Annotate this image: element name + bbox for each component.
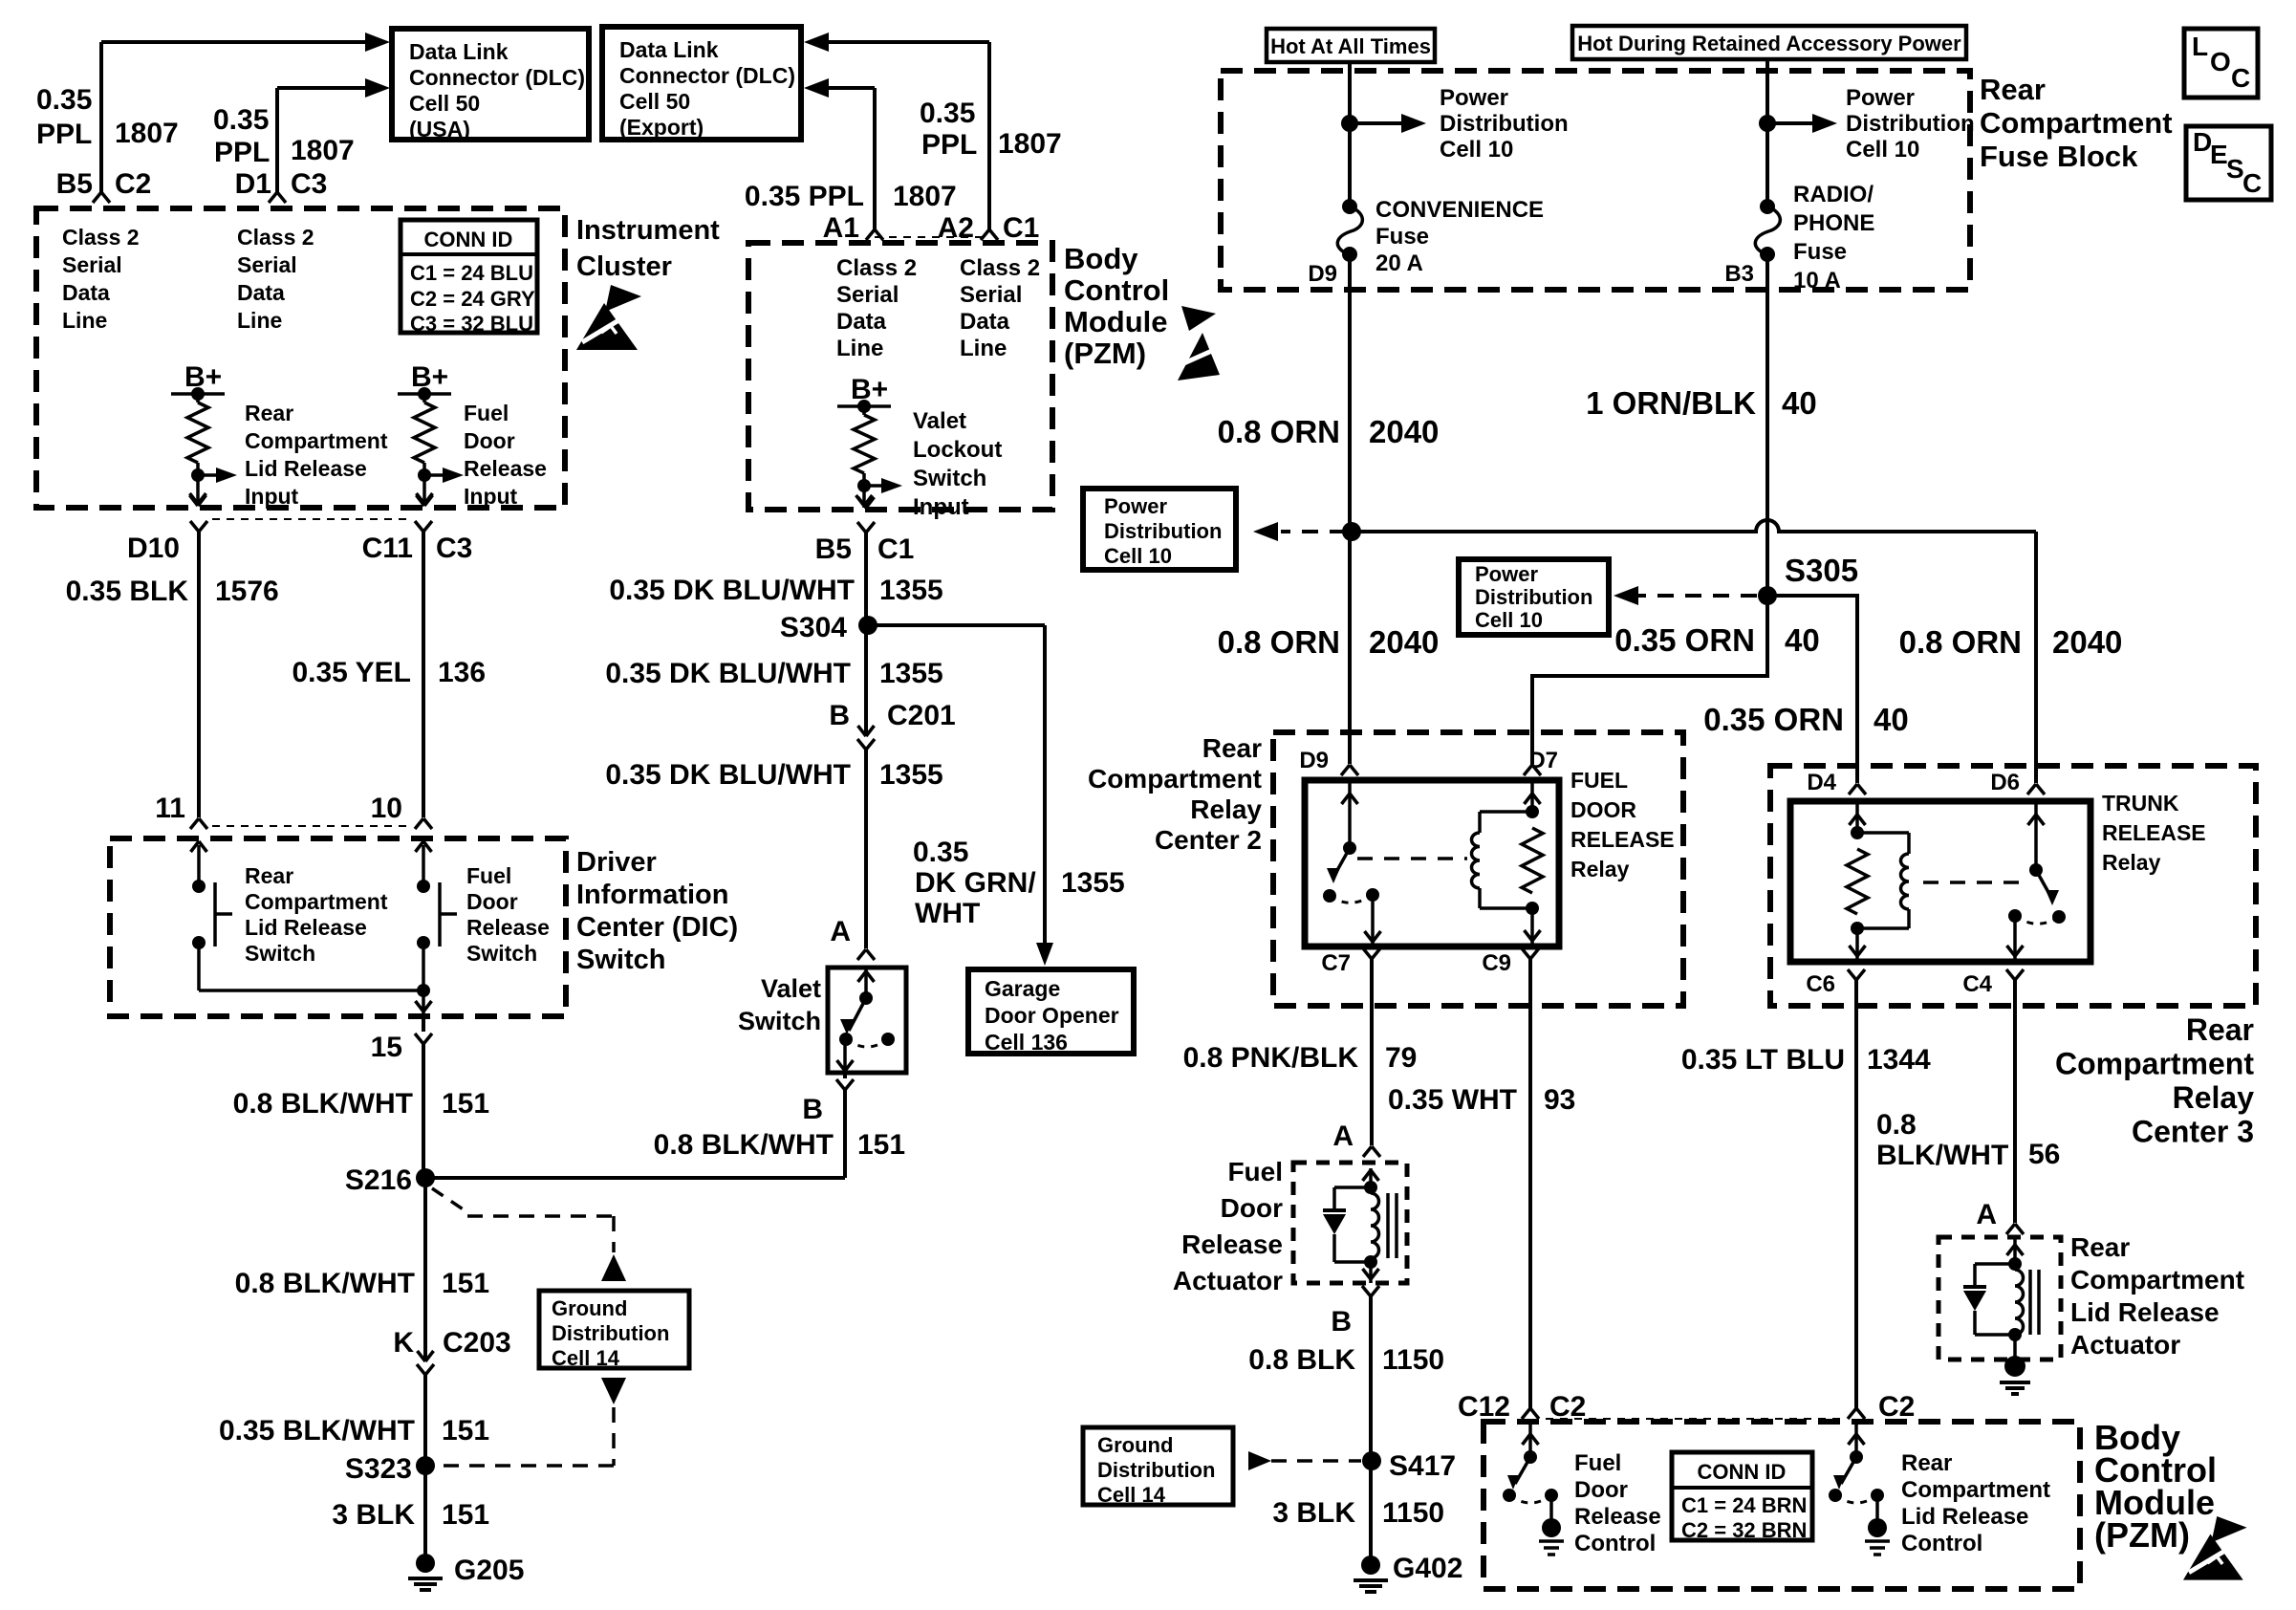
svg-text:1355: 1355: [879, 575, 943, 606]
svg-text:Distribution: Distribution: [1475, 585, 1592, 609]
svg-text:Cell 10: Cell 10: [1104, 544, 1172, 568]
svg-text:Door Opener: Door Opener: [985, 1003, 1119, 1028]
svg-text:TRUNK: TRUNK: [2102, 791, 2179, 816]
svg-text:RADIO/: RADIO/: [1793, 182, 1874, 207]
svg-text:1807: 1807: [291, 135, 355, 166]
svg-text:79: 79: [1385, 1042, 1417, 1074]
svg-text:Switch: Switch: [245, 941, 315, 966]
svg-text:0.8 BLK/WHT: 0.8 BLK/WHT: [233, 1088, 413, 1120]
svg-text:Release: Release: [1181, 1229, 1283, 1259]
svg-text:D9: D9: [1308, 261, 1337, 287]
svg-text:Cell 10: Cell 10: [1846, 137, 1919, 163]
svg-text:Power: Power: [1104, 494, 1167, 518]
svg-text:0.8 BLK/WHT: 0.8 BLK/WHT: [235, 1268, 415, 1299]
svg-text:S305: S305: [1785, 553, 1858, 588]
svg-text:Door: Door: [464, 428, 515, 453]
svg-text:3 BLK: 3 BLK: [332, 1499, 415, 1531]
svg-text:C9: C9: [1482, 950, 1511, 976]
svg-text:C2 = 24 GRY: C2 = 24 GRY: [410, 287, 535, 311]
svg-text:Fuel: Fuel: [466, 863, 511, 888]
svg-text:0.35: 0.35: [213, 104, 269, 136]
svg-text:1355: 1355: [879, 759, 943, 791]
svg-text:WHT: WHT: [915, 898, 980, 929]
svg-text:Serial: Serial: [836, 282, 899, 308]
svg-text:Connector (DLC): Connector (DLC): [409, 65, 585, 90]
svg-text:10 A: 10 A: [1793, 268, 1841, 294]
svg-text:Door: Door: [466, 889, 518, 914]
svg-text:Fuel: Fuel: [464, 401, 509, 425]
svg-text:Release: Release: [466, 915, 550, 940]
svg-text:Lid Release: Lid Release: [245, 456, 367, 481]
svg-text:0.35 LT BLU: 0.35 LT BLU: [1681, 1044, 1845, 1076]
svg-text:B5: B5: [56, 168, 93, 200]
svg-text:C3: C3: [436, 533, 472, 564]
svg-text:1150: 1150: [1382, 1497, 1444, 1529]
svg-text:Lockout: Lockout: [913, 437, 1002, 463]
svg-text:0.35: 0.35: [36, 84, 92, 116]
svg-text:0.8 ORN: 0.8 ORN: [1218, 624, 1340, 660]
svg-text:G205: G205: [454, 1555, 524, 1586]
svg-text:D4: D4: [1807, 770, 1836, 795]
svg-text:DOOR: DOOR: [1570, 797, 1636, 822]
svg-text:Valet: Valet: [913, 408, 966, 434]
svg-text:Class 2: Class 2: [62, 225, 140, 250]
svg-text:93: 93: [1544, 1084, 1575, 1116]
svg-text:151: 151: [442, 1415, 489, 1447]
svg-text:Instrument: Instrument: [576, 215, 720, 246]
svg-text:(USA): (USA): [409, 117, 470, 141]
svg-text:Power: Power: [1440, 85, 1508, 111]
svg-text:Garage: Garage: [985, 976, 1060, 1001]
svg-text:S: S: [2226, 154, 2244, 184]
svg-text:15: 15: [371, 1032, 402, 1063]
svg-text:1807: 1807: [115, 118, 179, 149]
svg-text:Input: Input: [464, 484, 518, 509]
svg-text:1576: 1576: [215, 576, 279, 607]
svg-text:Valet: Valet: [761, 974, 821, 1003]
svg-text:1344: 1344: [1867, 1044, 1931, 1076]
svg-text:B3: B3: [1724, 261, 1754, 287]
svg-text:1807: 1807: [893, 181, 957, 212]
svg-text:0.8 BLK: 0.8 BLK: [1248, 1344, 1355, 1376]
svg-text:C203: C203: [443, 1327, 511, 1359]
svg-text:0.8 BLK/WHT: 0.8 BLK/WHT: [654, 1129, 834, 1161]
svg-text:0.35 DK BLU/WHT: 0.35 DK BLU/WHT: [605, 658, 851, 689]
svg-text:D6: D6: [1990, 770, 2020, 795]
svg-text:E: E: [2210, 140, 2228, 169]
svg-text:Data Link: Data Link: [619, 37, 719, 62]
svg-text:1355: 1355: [879, 658, 943, 689]
svg-text:11: 11: [155, 793, 185, 824]
svg-text:Actuator: Actuator: [1173, 1266, 1283, 1295]
svg-text:CONN ID: CONN ID: [424, 228, 513, 251]
svg-text:151: 151: [442, 1499, 489, 1531]
svg-text:0.35: 0.35: [920, 98, 975, 129]
svg-text:C: C: [2231, 63, 2250, 93]
svg-text:B: B: [829, 700, 850, 731]
svg-text:Release: Release: [1574, 1504, 1661, 1530]
svg-text:Line: Line: [960, 336, 1007, 361]
svg-text:Cell 50: Cell 50: [409, 91, 480, 116]
svg-text:Cell 10: Cell 10: [1440, 137, 1513, 163]
svg-text:PHONE: PHONE: [1793, 210, 1874, 236]
svg-text:Distribution: Distribution: [1846, 111, 1975, 137]
svg-text:C: C: [2242, 168, 2262, 198]
svg-text:(PZM): (PZM): [1064, 337, 1146, 370]
svg-text:C6: C6: [1806, 971, 1835, 997]
svg-text:Class 2: Class 2: [960, 255, 1040, 281]
svg-text:0.8 PNK/BLK: 0.8 PNK/BLK: [1183, 1042, 1359, 1074]
svg-text:A2: A2: [938, 212, 974, 244]
svg-text:(Export): (Export): [619, 115, 704, 140]
svg-text:Body: Body: [1064, 242, 1138, 275]
svg-text:Connector (DLC): Connector (DLC): [619, 63, 795, 88]
svg-text:3 BLK: 3 BLK: [1272, 1497, 1355, 1529]
svg-text:C3: C3: [291, 168, 327, 200]
svg-text:Compartment: Compartment: [2055, 1047, 2254, 1081]
svg-text:A: A: [1976, 1199, 1997, 1230]
svg-text:S417: S417: [1389, 1450, 1456, 1482]
svg-text:C1: C1: [1003, 212, 1039, 244]
svg-text:0.8 ORN: 0.8 ORN: [1218, 414, 1340, 449]
svg-text:136: 136: [438, 657, 486, 688]
svg-text:Distribution: Distribution: [552, 1321, 669, 1345]
svg-text:Relay: Relay: [1190, 794, 1262, 824]
svg-text:BLK/WHT: BLK/WHT: [1876, 1140, 2008, 1171]
svg-text:10: 10: [371, 793, 402, 824]
svg-text:Lid Release: Lid Release: [2070, 1297, 2220, 1327]
svg-text:L: L: [2192, 32, 2208, 61]
svg-text:Switch: Switch: [913, 466, 986, 491]
svg-text:Rear: Rear: [1202, 733, 1262, 763]
svg-text:K: K: [393, 1327, 414, 1359]
svg-text:Cell 14: Cell 14: [1097, 1483, 1166, 1507]
svg-text:Serial: Serial: [237, 252, 297, 277]
svg-text:Ground: Ground: [552, 1296, 627, 1320]
svg-text:56: 56: [2028, 1139, 2060, 1170]
svg-text:Fuel: Fuel: [1227, 1157, 1283, 1186]
svg-text:151: 151: [857, 1129, 905, 1161]
svg-text:G402: G402: [1393, 1553, 1462, 1584]
svg-text:0.8: 0.8: [1876, 1109, 1917, 1141]
svg-text:D7: D7: [1528, 748, 1558, 773]
svg-text:FUEL: FUEL: [1570, 768, 1628, 793]
svg-text:Distribution: Distribution: [1440, 111, 1569, 137]
svg-text:Module: Module: [1064, 305, 1168, 338]
svg-text:Fuse Block: Fuse Block: [1980, 140, 2138, 173]
svg-text:1355: 1355: [1061, 867, 1125, 899]
svg-text:C12: C12: [1458, 1391, 1510, 1423]
svg-text:Data: Data: [960, 309, 1010, 335]
svg-text:20 A: 20 A: [1375, 250, 1423, 276]
svg-text:C2: C2: [1878, 1391, 1915, 1423]
svg-text:PPL: PPL: [921, 129, 977, 161]
svg-text:C201: C201: [887, 700, 956, 731]
svg-text:DK GRN/: DK GRN/: [915, 867, 1036, 899]
svg-text:Serial: Serial: [960, 282, 1022, 308]
svg-text:Cluster: Cluster: [576, 251, 672, 282]
svg-text:151: 151: [442, 1088, 489, 1120]
svg-text:0.35 DK BLU/WHT: 0.35 DK BLU/WHT: [609, 575, 855, 606]
svg-text:Line: Line: [836, 336, 883, 361]
svg-text:B+: B+: [851, 374, 888, 405]
svg-text:0.35 PPL: 0.35 PPL: [745, 181, 864, 212]
svg-text:C1 = 24 BRN: C1 = 24 BRN: [1681, 1493, 1807, 1517]
svg-text:Cell 136: Cell 136: [985, 1030, 1068, 1055]
svg-text:Release: Release: [464, 456, 547, 481]
svg-text:Fuse: Fuse: [1793, 239, 1847, 265]
svg-text:PPL: PPL: [214, 137, 270, 168]
svg-text:Compartment: Compartment: [1088, 764, 1262, 794]
svg-text:Center (DIC): Center (DIC): [576, 912, 738, 943]
svg-text:Fuel: Fuel: [1574, 1450, 1621, 1476]
svg-text:Rear: Rear: [245, 401, 293, 425]
svg-text:B+: B+: [411, 361, 448, 393]
svg-text:S323: S323: [345, 1453, 412, 1485]
svg-text:1150: 1150: [1382, 1344, 1444, 1376]
svg-text:Data: Data: [836, 309, 887, 335]
svg-text:Data: Data: [62, 280, 110, 305]
svg-text:Distribution: Distribution: [1097, 1458, 1215, 1482]
svg-text:Control: Control: [1901, 1531, 1982, 1556]
svg-text:D1: D1: [235, 168, 271, 200]
svg-text:Rear: Rear: [2186, 1012, 2254, 1047]
svg-text:Power: Power: [1475, 562, 1538, 586]
svg-text:CONN ID: CONN ID: [1698, 1460, 1787, 1484]
svg-text:151: 151: [442, 1268, 489, 1299]
svg-text:Control: Control: [1574, 1531, 1656, 1556]
svg-text:Relay: Relay: [1570, 857, 1630, 881]
svg-text:0.35 BLK/WHT: 0.35 BLK/WHT: [219, 1415, 415, 1447]
svg-text:B: B: [802, 1094, 823, 1125]
svg-text:S304: S304: [780, 612, 847, 643]
svg-text:RELEASE: RELEASE: [1570, 827, 1675, 852]
svg-text:Compartment: Compartment: [1980, 106, 2173, 140]
svg-text:Information: Information: [576, 880, 729, 910]
svg-text:Cell 10: Cell 10: [1475, 608, 1543, 632]
svg-text:Switch: Switch: [576, 945, 665, 975]
svg-text:Hot At All Times: Hot At All Times: [1270, 34, 1431, 58]
svg-text:2040: 2040: [1369, 414, 1439, 449]
svg-text:Ground: Ground: [1097, 1433, 1173, 1457]
svg-text:0.35 BLK: 0.35 BLK: [66, 576, 189, 607]
svg-text:Distribution: Distribution: [1104, 519, 1222, 543]
svg-text:Fuse: Fuse: [1375, 224, 1429, 250]
svg-text:D9: D9: [1299, 748, 1329, 773]
svg-text:PPL: PPL: [36, 119, 92, 150]
svg-text:O: O: [2210, 47, 2231, 76]
svg-text:Power: Power: [1846, 85, 1915, 111]
svg-text:Cell 50: Cell 50: [619, 89, 690, 114]
svg-text:1 ORN/BLK: 1 ORN/BLK: [1586, 385, 1756, 421]
svg-text:D10: D10: [127, 533, 180, 564]
svg-text:Input: Input: [245, 484, 299, 509]
svg-text:Line: Line: [62, 308, 107, 333]
svg-text:Input: Input: [913, 494, 969, 520]
svg-text:(PZM): (PZM): [2094, 1515, 2190, 1555]
svg-text:A: A: [1332, 1120, 1354, 1152]
svg-text:Relay: Relay: [2102, 850, 2161, 875]
svg-text:40: 40: [1874, 702, 1909, 737]
svg-text:C1 = 24 BLU: C1 = 24 BLU: [410, 261, 533, 285]
svg-text:Cell 14: Cell 14: [552, 1346, 620, 1370]
svg-text:0.35 YEL: 0.35 YEL: [292, 657, 411, 688]
svg-text:C3 = 32 BLU: C3 = 32 BLU: [410, 312, 533, 336]
svg-text:C4: C4: [1962, 971, 1992, 997]
svg-text:Data: Data: [237, 280, 285, 305]
svg-text:0.35 ORN: 0.35 ORN: [1703, 702, 1844, 737]
svg-text:Hot During Retained Accessory: Hot During Retained Accessory Power: [1577, 32, 1961, 55]
svg-text:Lid Release: Lid Release: [1901, 1504, 2028, 1530]
svg-text:B5: B5: [815, 533, 852, 565]
svg-text:C2 = 32 BRN: C2 = 32 BRN: [1681, 1518, 1807, 1542]
svg-text:Lid Release: Lid Release: [245, 915, 367, 940]
svg-text:0.35: 0.35: [913, 837, 968, 868]
svg-text:Class 2: Class 2: [237, 225, 314, 250]
svg-text:Class 2: Class 2: [836, 255, 917, 281]
svg-text:2040: 2040: [2052, 624, 2122, 660]
svg-text:0.35 ORN: 0.35 ORN: [1614, 622, 1755, 658]
svg-text:Actuator: Actuator: [2070, 1330, 2180, 1360]
svg-text:S216: S216: [345, 1164, 412, 1196]
svg-text:Driver: Driver: [576, 847, 657, 878]
svg-text:Compartment: Compartment: [245, 889, 388, 914]
svg-text:Compartment: Compartment: [1901, 1477, 2050, 1503]
svg-text:A: A: [830, 916, 851, 947]
svg-text:A1: A1: [823, 212, 859, 244]
svg-text:0.35 DK BLU/WHT: 0.35 DK BLU/WHT: [605, 759, 851, 791]
svg-text:Rear: Rear: [1980, 73, 2046, 106]
svg-text:Rear: Rear: [2070, 1232, 2130, 1262]
svg-text:RELEASE: RELEASE: [2102, 820, 2206, 845]
svg-text:Door: Door: [1574, 1477, 1628, 1503]
svg-text:B+: B+: [184, 361, 222, 393]
svg-text:2040: 2040: [1369, 624, 1439, 660]
svg-text:Rear: Rear: [245, 863, 293, 888]
svg-text:Switch: Switch: [466, 941, 537, 966]
svg-text:Rear: Rear: [1901, 1450, 1952, 1476]
svg-text:Door: Door: [1221, 1193, 1283, 1223]
svg-text:C11: C11: [362, 533, 413, 564]
svg-text:Center 2: Center 2: [1155, 825, 1262, 855]
svg-text:40: 40: [1782, 385, 1817, 421]
svg-text:Switch: Switch: [738, 1007, 821, 1035]
svg-text:C1: C1: [877, 533, 914, 565]
svg-text:0.35 WHT: 0.35 WHT: [1388, 1084, 1517, 1116]
svg-text:0.8 ORN: 0.8 ORN: [1899, 624, 2022, 660]
svg-text:Compartment: Compartment: [245, 428, 388, 453]
svg-text:B: B: [1331, 1306, 1352, 1338]
svg-text:Compartment: Compartment: [2070, 1265, 2244, 1295]
svg-text:Serial: Serial: [62, 252, 122, 277]
svg-text:C2: C2: [115, 168, 151, 200]
svg-text:Center 3: Center 3: [2132, 1115, 2254, 1149]
svg-text:40: 40: [1785, 622, 1820, 658]
svg-text:Relay: Relay: [2173, 1080, 2255, 1115]
svg-text:1807: 1807: [998, 128, 1062, 160]
svg-text:Control: Control: [1064, 273, 1169, 307]
svg-text:Data Link: Data Link: [409, 39, 509, 64]
svg-text:Line: Line: [237, 308, 282, 333]
svg-text:C7: C7: [1321, 950, 1351, 976]
svg-text:CONVENIENCE: CONVENIENCE: [1375, 197, 1544, 223]
